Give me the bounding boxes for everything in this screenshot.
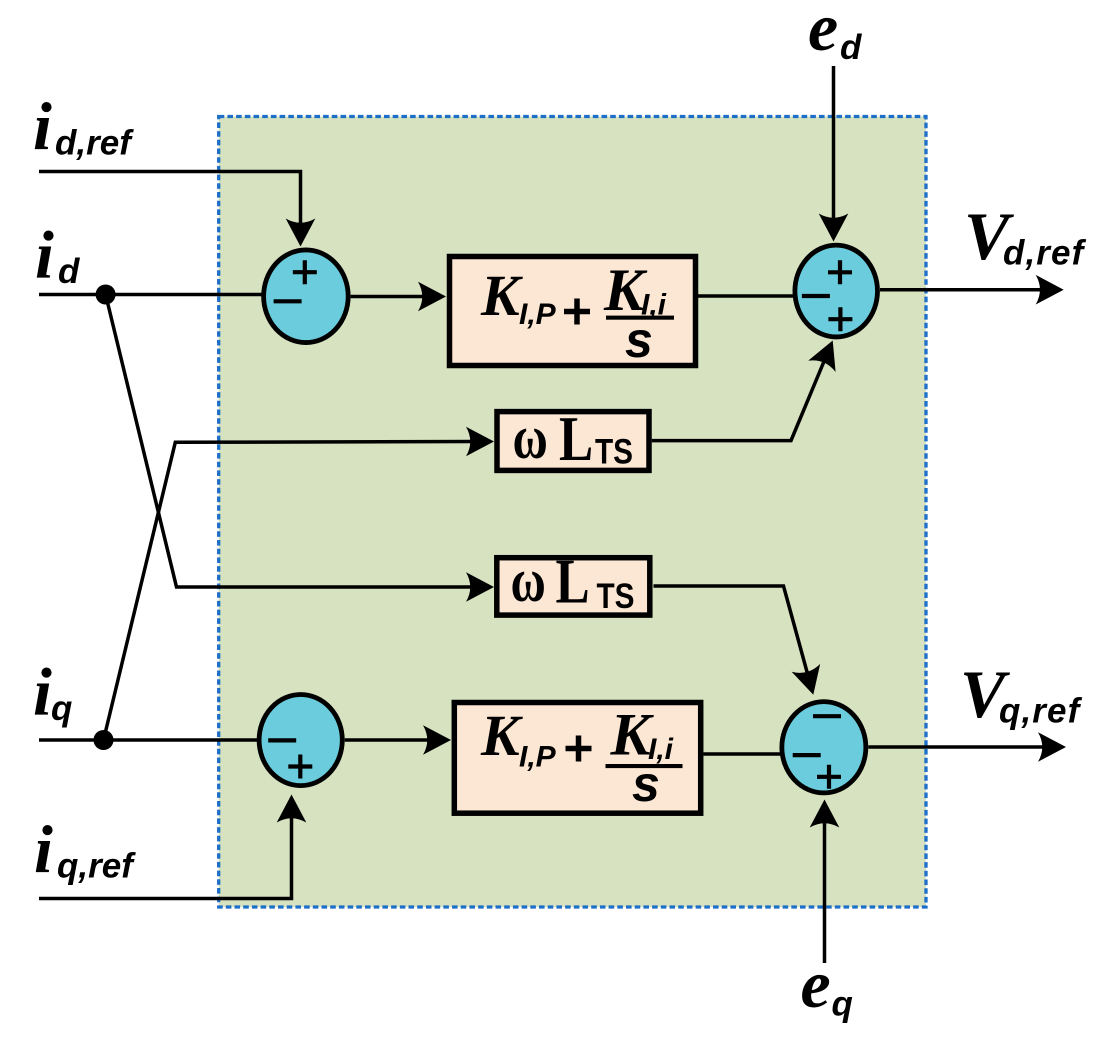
wire i_d input (39, 293, 263, 297)
wire e_d input (819, 66, 849, 242)
node on i_d (96, 285, 116, 305)
svg-text:I,P: I,P (519, 741, 557, 774)
svg-text:q,ref: q,ref (57, 847, 136, 886)
svg-text:L: L (556, 545, 590, 617)
svg-text:i: i (33, 654, 52, 730)
svg-text:q: q (832, 985, 853, 1024)
PI block 2 (454, 702, 700, 814)
wLts block 2 (lower) (497, 545, 650, 617)
svg-text:K: K (480, 263, 523, 328)
wire i_q to upper wLts block (cross coupling) (104, 427, 495, 740)
wire i_q,ref input (39, 795, 306, 899)
svg-text:e: e (808, 0, 838, 65)
wire i_q input (39, 738, 258, 742)
svg-text:i: i (33, 88, 52, 164)
svg-text:L: L (559, 403, 593, 475)
label e_d (808, 0, 862, 67)
wire PI2 to S4 (704, 752, 782, 756)
wire e_q input (810, 800, 840, 964)
summing junction S2 (795, 245, 878, 337)
summing junction S3 (259, 695, 342, 786)
label e_q (801, 946, 853, 1024)
wire S4 to V_q,ref output (868, 732, 1066, 762)
svg-text:TS: TS (595, 432, 633, 471)
wLts block 1 (upper) (497, 403, 649, 475)
wire S2 to V_d,ref output (880, 275, 1064, 305)
wire PI1 to S2 (698, 294, 794, 298)
summing junction S4 (782, 702, 866, 793)
wire wLts1 to S2 bottom (652, 335, 847, 441)
svg-text:i: i (35, 217, 54, 293)
svg-text:s: s (632, 756, 660, 812)
label i_d,ref (33, 88, 134, 164)
wire i_d,ref input (39, 172, 315, 247)
label i_d (35, 217, 80, 293)
PI block 1 (450, 257, 696, 369)
svg-text:i: i (34, 811, 53, 887)
svg-text:q,ref: q,ref (999, 692, 1083, 731)
label V_d,ref (964, 198, 1087, 274)
svg-text:d,ref: d,ref (55, 124, 134, 163)
node on i_q (94, 730, 114, 750)
label i_q,ref (34, 811, 136, 887)
label i_q (33, 654, 72, 730)
wire wLts2 to S4 top (654, 586, 828, 699)
svg-text:ω: ω (513, 403, 548, 472)
svg-text:s: s (625, 312, 653, 368)
summing junction S1 (264, 250, 349, 343)
controller boundary box (green, blue dashed) (219, 117, 926, 908)
wire S3 to PI block 2 (345, 725, 451, 755)
svg-text:e: e (801, 946, 831, 1022)
svg-text:TS: TS (597, 577, 635, 616)
svg-text:I,P: I,P (519, 298, 557, 331)
label V_q,ref (960, 656, 1083, 732)
wire i_d to lower wLts block (cross coupling) (106, 295, 494, 602)
svg-text:q: q (51, 689, 72, 728)
svg-text:d,ref: d,ref (1003, 234, 1087, 273)
svg-text:d: d (840, 28, 862, 67)
wire S1 to PI block 1 (351, 282, 446, 312)
svg-text:K: K (480, 703, 523, 768)
svg-text:ω: ω (511, 546, 546, 615)
svg-text:d: d (58, 252, 80, 291)
